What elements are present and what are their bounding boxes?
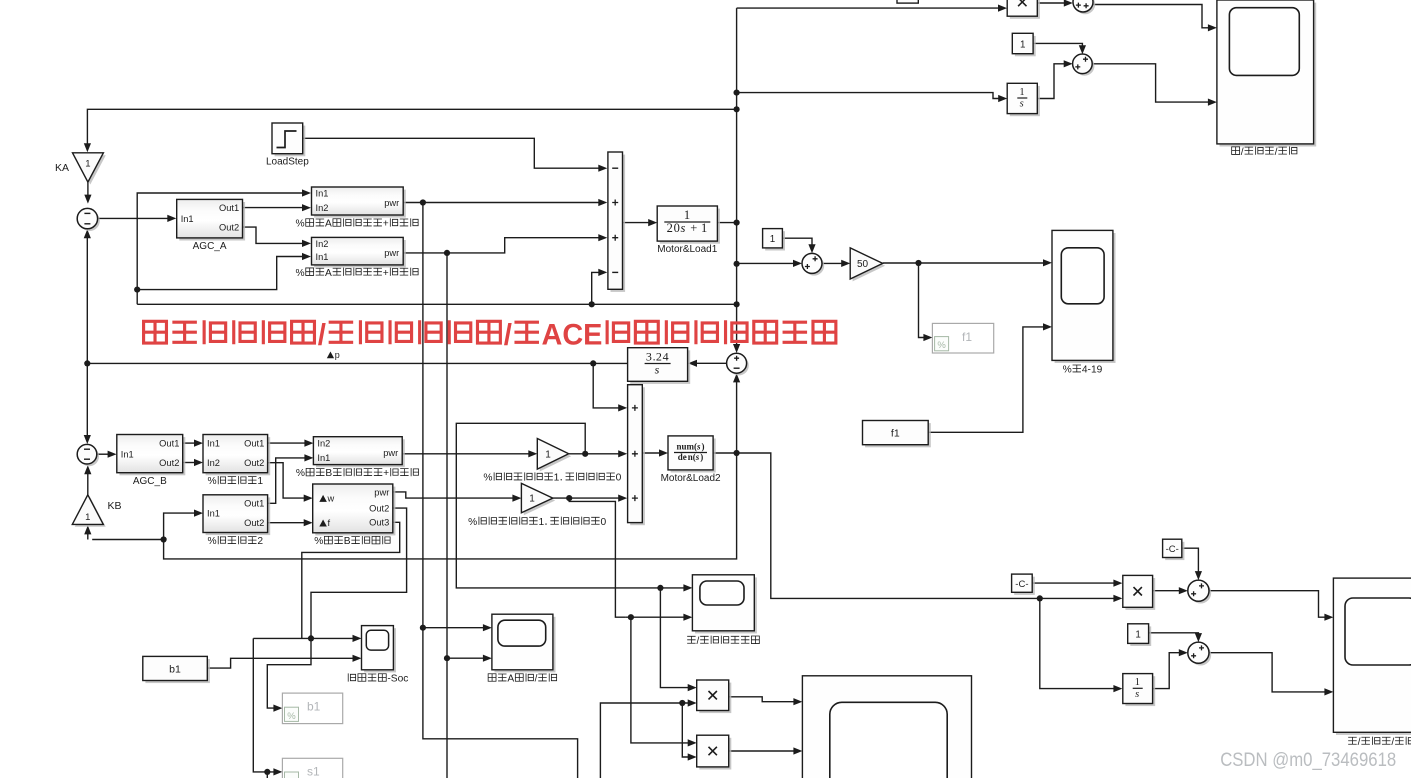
junction ACE line split A/B — [84, 360, 90, 366]
svg-text:B: B — [325, 468, 332, 479]
junction thermal A scope tap — [420, 625, 426, 631]
svg-text:-Soc: -Soc — [387, 674, 408, 685]
annotation water enable — [483, 472, 621, 483]
arrow into 1/s — [998, 95, 1007, 102]
sum E circle — [802, 253, 824, 275]
junction f-line/integrator tap — [734, 90, 740, 96]
arrow into product X3 bottom — [1113, 595, 1122, 602]
gain 1 wind — [521, 483, 555, 515]
junction dp line on f-line — [734, 301, 740, 307]
svg-text:0: 0 — [616, 473, 622, 484]
arrow into scope fig4-19 port1 — [1043, 259, 1052, 266]
junction Out2 net tap to Soc scope — [308, 635, 314, 641]
tie line sum circle — [727, 353, 749, 375]
label scope speed/angle B — [1348, 737, 1411, 748]
junction product bottom input split — [679, 700, 685, 706]
svg-text:%: % — [208, 476, 217, 487]
label scope fig4-19 — [1063, 365, 1103, 376]
wire AGC_B Out2 to switch1 In2 — [183, 462, 199, 464]
wire 1/s B to Sum I left — [1153, 653, 1183, 689]
arrow into speed scope port2 — [1208, 99, 1217, 106]
svg-text:1: 1 — [770, 234, 775, 245]
wire f2 to integrator 1/s B — [1040, 598, 1118, 688]
wire Sum E to gain 50 — [822, 262, 845, 264]
wire water signal to product X1 — [660, 588, 692, 688]
wire f2 to product X2 right cluster — [737, 453, 1118, 598]
wire dp riser to Sum A bottom - — [592, 272, 603, 304]
arrow into Sum B bar plus1 — [618, 404, 627, 411]
arrow into tie sum + input — [733, 344, 740, 353]
commented display b1 — [282, 693, 342, 724]
svg-text:f1: f1 — [962, 330, 972, 344]
annotation wind enable — [468, 517, 606, 528]
svg-text:1: 1 — [1020, 40, 1025, 51]
wire LoadStep to Sum A - — [303, 138, 603, 168]
wire hydro A signal off-screen — [446, 658, 448, 778]
svg-text:1: 1 — [545, 449, 551, 460]
arrow into speed scope port1 — [1208, 24, 1217, 31]
wire Sum A to Motor&Load1 — [623, 222, 653, 224]
wire KA to Sum A circle — [87, 182, 89, 200]
svg-text:1: 1 — [684, 208, 690, 222]
svg-text:1: 1 — [554, 473, 560, 484]
junction dp riser junction — [589, 301, 595, 307]
svg-text:+: + — [690, 221, 697, 235]
svg-text:ACE: ACE — [542, 318, 603, 351]
svg-text:Motor&Load1: Motor&Load1 — [657, 244, 717, 255]
wire KB input riser — [87, 528, 89, 540]
wire thermal A signal off-screen — [423, 628, 578, 778]
wire f1 tag to scope fig4-19 — [928, 327, 1047, 432]
svg-text:s: s — [1020, 99, 1024, 110]
svg-text:p: p — [335, 350, 340, 360]
svg-text:In2: In2 — [316, 239, 329, 249]
scope hydro/wind speed/angle — [144, 318, 1411, 771]
wire product X2 to big scope — [729, 750, 798, 752]
junction f-line/KA tap — [734, 106, 740, 112]
wire KA feedback from f-line — [87, 109, 736, 149]
arrow into Motor&Load2 — [659, 449, 668, 456]
commented display f1 — [932, 323, 993, 353]
svg-text:50: 50 — [857, 259, 869, 270]
svg-text:e: e — [683, 452, 687, 462]
wire thermal A signal down to scope — [423, 203, 487, 628]
svg-text:Out2: Out2 — [244, 458, 264, 468]
svg-text:/: / — [504, 318, 513, 351]
arrow into Sum E left — [793, 260, 802, 267]
svg-text:B: B — [344, 536, 351, 547]
svg-text:LoadStep: LoadStep — [266, 157, 309, 168]
wire off-screen to product X1 bottom — [600, 703, 692, 778]
svg-text:1: 1 — [257, 476, 263, 487]
wire gain 50 to scope fig4-19 — [883, 262, 1047, 264]
wire Motor&Load2 output — [713, 452, 737, 454]
wire Sum F to speed scope — [1093, 5, 1212, 28]
wire f-line to integrator 1/s — [737, 93, 1002, 99]
arrow into Sum A plus1 — [598, 199, 607, 206]
wire ACE line from 3.24-s output — [87, 362, 627, 364]
label wind storage coord B — [314, 536, 390, 547]
svg-text:Out1: Out1 — [244, 438, 264, 448]
wire f2 feedback to KB — [92, 453, 736, 559]
wire Out3 net to s1 display — [253, 638, 277, 772]
svg-text:/: / — [697, 636, 700, 647]
svg-text:In1: In1 — [181, 214, 194, 224]
svg-text:-C-: -C- — [1015, 579, 1028, 590]
arrow into hydro B In2 — [304, 440, 313, 447]
svg-text:): ) — [700, 452, 703, 462]
wire switch2 Out2 to wind coord f — [268, 522, 308, 524]
junction f2 right cluster split — [1037, 595, 1043, 601]
annotation dp — [327, 350, 340, 360]
junction Hz signal tap — [915, 260, 921, 266]
svg-text:%: % — [287, 711, 296, 722]
svg-text:s: s — [695, 452, 700, 462]
arrow into big scope port2 — [793, 747, 802, 754]
sum H circle — [1188, 580, 1211, 603]
label thermal governor A — [296, 218, 419, 229]
wire KB to Sum B circle — [87, 468, 89, 495]
svg-text:Out1: Out1 — [244, 499, 264, 509]
sum G circle — [1073, 54, 1095, 76]
wire switch1 Out2 to wind coord w — [268, 463, 308, 498]
arrow into product X1 top — [688, 684, 697, 691]
commented display s1 — [282, 758, 342, 778]
svg-text:%: % — [296, 468, 305, 479]
svg-text:0: 0 — [674, 221, 680, 235]
wire const -C- to product X3 — [1032, 582, 1117, 584]
arrow into areaA scope port2 — [483, 655, 492, 662]
wire wind signal down — [569, 498, 625, 617]
svg-text:In1: In1 — [316, 189, 329, 199]
svg-text:/: / — [535, 674, 538, 685]
wire wind signal to scope — [625, 616, 687, 618]
svg-text:pwr: pwr — [383, 448, 398, 458]
arrow into hydro B In1 — [304, 454, 313, 461]
svg-text:KA: KA — [55, 162, 69, 174]
svg-text:/: / — [1358, 737, 1361, 748]
svg-text:+: + — [383, 268, 389, 279]
svg-text:In1: In1 — [316, 252, 329, 262]
svg-text:2: 2 — [257, 536, 263, 547]
arrow into KA gain — [84, 143, 91, 152]
svg-text:b1: b1 — [307, 700, 321, 714]
junction wind signal tap — [566, 495, 572, 501]
junction water signal tap2 — [657, 585, 663, 591]
wire dp line (freq deviation bus) — [137, 303, 736, 305]
junction Motor&Load1 output on f-line — [734, 220, 740, 226]
svg-text:pwr: pwr — [374, 487, 389, 497]
wire thermal A pwr to Sum A + — [403, 202, 602, 204]
arrow into wind coord f — [304, 519, 313, 526]
arrow into KB gain — [84, 525, 91, 534]
junction df feedback split — [134, 287, 140, 293]
wire Sum I to speed scope B — [1209, 653, 1329, 692]
arrow into commented b1 display — [273, 705, 282, 712]
arrow into Sum B bar plus3 — [618, 495, 627, 502]
wire b1 to Soc scope port2 — [207, 658, 356, 668]
wire Sum A circle to AGC_A — [98, 217, 172, 219]
wire Out3 net down — [302, 522, 400, 638]
annotation red title — [144, 318, 836, 351]
svg-text:f1: f1 — [891, 427, 900, 439]
svg-text:4-19: 4-19 — [1082, 365, 1103, 376]
label control switch 1 — [208, 476, 264, 487]
wire 1/s to Sum G left — [1037, 64, 1068, 99]
svg-text:CSDN @m0_73469618: CSDN @m0_73469618 — [1220, 749, 1396, 771]
wire Out2 net to b1 display — [267, 508, 406, 708]
arrow into wind coord w — [304, 495, 313, 502]
svg-text:Out1: Out1 — [219, 203, 239, 213]
junction wind signal tap2 — [628, 614, 634, 620]
svg-text:1: 1 — [529, 494, 535, 505]
svg-text:pwr: pwr — [384, 198, 399, 208]
wire const -C-2 to Sum H top — [1182, 548, 1199, 575]
svg-text:%: % — [296, 268, 305, 279]
svg-text:1: 1 — [1135, 677, 1140, 688]
svg-text:In1: In1 — [317, 453, 330, 463]
arrow into Sum I top — [1195, 633, 1202, 642]
svg-text:/: / — [1241, 147, 1244, 158]
svg-text:In2: In2 — [317, 438, 330, 448]
svg-text:s: s — [655, 362, 660, 376]
arrow into gain 1 wind — [512, 495, 521, 502]
svg-text:Motor&Load2: Motor&Load2 — [661, 473, 721, 484]
wire ACE up to Sum A circle — [86, 232, 88, 364]
svg-text:s: s — [681, 221, 686, 235]
3.24-s fraction — [645, 363, 671, 365]
gain 50 — [850, 248, 885, 282]
arrow into product X3 top — [1113, 580, 1122, 587]
arrow into gain 50 — [841, 260, 850, 267]
wire Hz tap to commented f1 display — [919, 263, 928, 338]
svg-text:w: w — [327, 494, 335, 504]
const 1 bottom right — [144, 318, 1411, 771]
arrow into hydro A In1 — [302, 253, 311, 260]
svg-text:1: 1 — [1019, 87, 1024, 98]
arrow into Sum A minus — [598, 165, 607, 172]
svg-text:In2: In2 — [207, 458, 220, 468]
arrow into Sum B circle top — [84, 435, 91, 444]
arrow into speed scope B port1 — [1324, 614, 1333, 621]
svg-text:/: / — [1391, 737, 1394, 748]
junction ACE line tap to Sum B bar — [590, 360, 596, 366]
junction water signal tap — [582, 451, 588, 457]
wire gain1f to Sum B bar — [553, 497, 623, 499]
gain KB — [72, 495, 105, 527]
gain 1 water — [537, 439, 571, 472]
svg-text:1: 1 — [701, 221, 707, 235]
arrow into product X top — [998, 5, 1007, 12]
arrow into commented s1 display — [273, 768, 282, 775]
wire const1 to Sum G top — [1033, 43, 1082, 49]
svg-text:s1: s1 — [307, 765, 320, 778]
Motor&Load1 fraction — [664, 221, 710, 223]
wire product X3 to Sum H — [1153, 590, 1183, 592]
arrow into Sum A circle top — [84, 195, 91, 204]
arrow into switch2 In1 — [194, 510, 203, 517]
arrow into Sum B bar plus2 — [618, 450, 627, 457]
product X3 — [144, 318, 1411, 771]
label hydro governor A — [296, 268, 419, 279]
wire f2 up to tie sum bottom — [736, 376, 738, 453]
arrow into areaA scope port1 — [483, 624, 492, 631]
svg-text:1: 1 — [85, 159, 90, 170]
svg-text:Out2: Out2 — [244, 518, 264, 528]
wire tie sum to 3.24-s input — [693, 362, 727, 364]
1/s B fraction — [1133, 687, 1143, 689]
svg-text:%: % — [1063, 365, 1072, 376]
label scope area A — [488, 673, 556, 684]
wire product X to Sum F — [1037, 2, 1068, 4]
arrow into product X1 bottom — [688, 699, 697, 706]
arrow into gain 1 water — [528, 450, 537, 457]
svg-text:Out2: Out2 — [369, 504, 389, 514]
wire switch2 Out1 to hydro B In1 — [268, 458, 309, 503]
wire Sum G to speed scope — [1092, 64, 1212, 102]
wire ACE down to Sum B circle — [86, 363, 88, 441]
wire const 1 to Sum I top — [1149, 633, 1199, 638]
arrow into tie sum - input — [733, 373, 740, 382]
svg-text:f: f — [328, 518, 331, 528]
wire Sum B circle to AGC_B — [97, 453, 112, 455]
svg-text:A: A — [325, 268, 332, 279]
svg-text:/: / — [1275, 147, 1278, 158]
wire AGC_B Out1 to switch1 In1 — [183, 442, 199, 444]
wire Out2/Out3 horizontal to Soc scope — [253, 637, 356, 639]
wire product X1 to big scope — [729, 697, 798, 702]
arrow into AGC_B In1 — [108, 451, 117, 458]
wire df feedback to thermal A In1 — [137, 193, 306, 304]
svg-text:Out2: Out2 — [159, 458, 179, 468]
junction Motor&Load2 output junction — [734, 450, 740, 456]
arrow into switch1 In1 — [194, 440, 203, 447]
arrow into Sum A circle bottom — [84, 229, 91, 238]
const -C- 2 — [144, 318, 1411, 771]
svg-text:): ) — [702, 441, 705, 451]
sum I circle — [1188, 642, 1211, 665]
svg-text:+: + — [383, 219, 389, 230]
sum F circle — [1073, 0, 1095, 14]
svg-text:AGC_B: AGC_B — [133, 476, 167, 487]
arrow into 3.24-s block — [688, 360, 697, 367]
wire f-line top branch to product — [737, 7, 1002, 9]
sum B circle — [77, 444, 99, 466]
arrow into scope hydro-wind port2 — [683, 614, 692, 621]
label scope speed/angle A — [1232, 146, 1297, 157]
arrow into Sum H top — [1195, 571, 1202, 580]
arrow into commented f1 display — [923, 334, 932, 341]
wire ACE to Sum B bar top + — [593, 363, 622, 408]
arrow into Motor&Load1 — [648, 219, 657, 226]
arrow into Soc scope port1 — [353, 635, 362, 642]
gain KA — [73, 153, 106, 185]
svg-text:In2: In2 — [316, 203, 329, 213]
wire wind pwr to gain1f — [393, 492, 517, 498]
label scope Soc — [348, 673, 408, 684]
wire hydro B pwr to gain1w — [402, 453, 532, 455]
arrow into Sum F left — [1064, 0, 1073, 7]
wire f-line vertical (area A freq) — [736, 8, 738, 350]
Motor&Load2 fraction — [674, 452, 707, 454]
svg-text:0: 0 — [601, 517, 607, 528]
svg-text:2: 2 — [667, 221, 673, 235]
junction s1 net junction — [264, 769, 270, 775]
wire s1 net off-screen — [266, 772, 268, 778]
arrow into big scope port1 — [793, 698, 802, 705]
svg-text:In1: In1 — [121, 449, 134, 459]
junction f-line Hz tap — [734, 261, 740, 267]
wire hydro A signal down to scope — [447, 253, 487, 658]
wire Motor&Load1 output — [717, 222, 736, 224]
svg-text:%: % — [468, 517, 477, 528]
junction hydro A pwr tap — [444, 250, 450, 256]
junction KB feedback split — [161, 536, 167, 542]
svg-text:s: s — [696, 441, 701, 451]
svg-text:KB: KB — [108, 500, 122, 512]
wire df feedback to hydro A In1 — [137, 257, 306, 290]
svg-text:A: A — [507, 674, 514, 685]
wire AGC_A Out1 to thermal In2 — [243, 207, 307, 209]
arrow into speed scope B port2 — [1324, 688, 1333, 695]
arrow into thermal A In1 — [302, 189, 311, 196]
wire hydro A pwr to Sum A + — [403, 238, 602, 253]
sum A circle — [77, 208, 100, 231]
arrow into product X2 top — [688, 739, 697, 746]
integrator 1/s A — [144, 83, 1411, 771]
wire split to product X2 bottom — [682, 703, 692, 757]
wire const 1 to Sum E top — [782, 238, 812, 248]
wire gain1w to Sum B bar — [569, 453, 623, 455]
arrow into scope fig4-19 port2 — [1043, 323, 1052, 330]
svg-text:pwr: pwr — [384, 248, 399, 258]
wire Sum H to speed scope B — [1209, 591, 1329, 618]
svg-text:Out1: Out1 — [159, 438, 179, 448]
svg-text:In1: In1 — [207, 438, 220, 448]
svg-text:1: 1 — [539, 517, 545, 528]
svg-text:/: / — [318, 318, 327, 351]
wire switch1 Out1 to hydro B In2 — [268, 442, 309, 444]
junction thermal A pwr tap — [420, 199, 426, 205]
arrow into Sum B circle bottom — [84, 465, 91, 474]
1/s A fraction — [1017, 97, 1027, 99]
svg-text:3: 3 — [646, 349, 652, 363]
arrow into Sum G top — [1079, 45, 1086, 54]
wire AGC_A Out2 to hydro A In2 — [243, 227, 307, 243]
arrow into 1/s B — [1113, 685, 1122, 692]
svg-text:Out2: Out2 — [219, 223, 239, 233]
svg-text:%: % — [314, 536, 323, 547]
label scope hydro/wind output — [687, 636, 759, 647]
arrow into product X2 bottom — [688, 753, 697, 760]
svg-text:A: A — [325, 219, 332, 230]
svg-text:Out3: Out3 — [369, 518, 389, 528]
arrow into Sum I left — [1179, 649, 1188, 656]
junction hydro A scope tap — [444, 655, 450, 661]
svg-text:2: 2 — [656, 349, 662, 363]
svg-text:+: + — [383, 468, 389, 479]
arrow into thermal A In2 — [302, 204, 311, 211]
wire f2 to switch2 In1 — [164, 513, 199, 539]
wire water signal loop to scope — [456, 423, 687, 588]
arrow into Sum A plus2 — [598, 234, 607, 241]
svg-text:In1: In1 — [207, 508, 220, 518]
svg-text:%: % — [483, 473, 492, 484]
arrow into AGC_A In1 — [167, 215, 176, 222]
arrow into Sum H left — [1179, 587, 1188, 594]
svg-text:s: s — [1135, 689, 1139, 700]
label control switch 2 — [208, 536, 264, 547]
